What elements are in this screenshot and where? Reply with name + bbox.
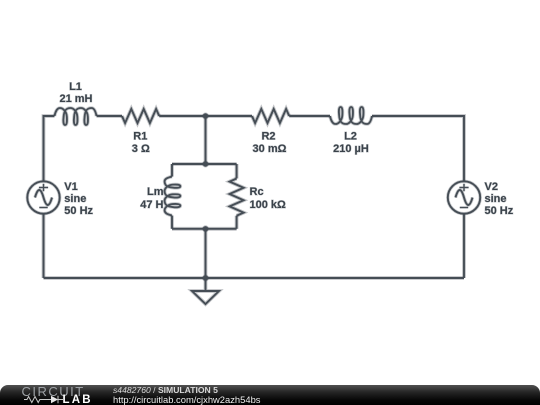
inductor L2: [330, 107, 372, 124]
voltage source V1: [27, 181, 59, 213]
inductor Lm: [165, 177, 181, 216]
CircuitLab logo wordmark LAB: [63, 396, 93, 405]
svg-text:Rc: Rc: [250, 186, 264, 198]
svg-text:R1: R1: [133, 131, 147, 143]
svg-text:50 Hz: 50 Hz: [64, 205, 93, 217]
svg-text:100 kΩ: 100 kΩ: [250, 199, 287, 211]
svg-text:47 H: 47 H: [140, 199, 163, 211]
voltage source V2: [448, 181, 480, 213]
footer bar: [0, 385, 540, 405]
CircuitLab logo wire-resistor-diode glyph: [24, 395, 66, 405]
svg-text:3 Ω: 3 Ω: [132, 143, 150, 155]
svg-text:30 mΩ: 30 mΩ: [253, 143, 287, 155]
footer simulation id text: [113, 386, 218, 395]
svg-text:R2: R2: [261, 131, 275, 143]
inductor L1: [55, 108, 97, 125]
junction dot (bottom of parallel block): [203, 226, 208, 231]
junction dot (top of parallel block): [203, 161, 208, 166]
svg-text:Lm: Lm: [147, 186, 164, 198]
svg-text:sine: sine: [64, 193, 86, 205]
svg-text:L1: L1: [69, 81, 82, 93]
svg-text:sine: sine: [485, 193, 507, 205]
svg-text:210 µH: 210 µH: [333, 143, 369, 155]
junction dot halos: [202, 113, 209, 282]
footer url text: [113, 395, 260, 405]
svg-text:V2: V2: [485, 181, 498, 193]
svg-text:21 mH: 21 mH: [59, 93, 92, 105]
svg-text:V1: V1: [64, 181, 77, 193]
circuit wiring (core layer): [44, 109, 465, 304]
node A junction dot (top rail): [203, 113, 208, 118]
circuit wiring (halo layer): [44, 109, 465, 304]
svg-text:50 Hz: 50 Hz: [485, 205, 514, 217]
svg-text:L2: L2: [344, 131, 357, 143]
CircuitLab logo wordmark CIRCUIT: [22, 385, 85, 398]
junction dot (ground rail): [203, 275, 208, 280]
